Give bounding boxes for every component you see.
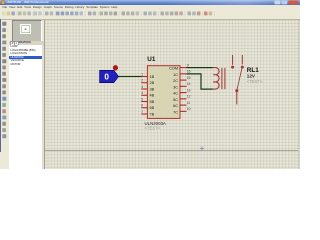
overview window [12, 20, 42, 44]
svg-text:2: 2 [141, 79, 143, 83]
wire: U1 pin 16 (1C) to RL1 coil bottom [187, 74, 213, 89]
pin 4 (4B) [141, 91, 154, 98]
pin 11 (6C) [173, 101, 190, 108]
svg-text:10: 10 [187, 107, 191, 111]
relay RL1 coil (inductor) [213, 68, 219, 90]
node marker dot [113, 65, 118, 70]
svg-text:5C: 5C [173, 98, 178, 102]
logic state input (0) [100, 70, 119, 82]
svg-text:<TEXT>: <TEXT> [247, 79, 263, 84]
wire: U1 pin 9 (COM) to RL1 coil top [187, 67, 213, 69]
toolbar [0, 10, 300, 20]
svg-text:13: 13 [187, 88, 191, 92]
text placeholder of U1 [145, 126, 161, 131]
left toolbar icons [2, 22, 6, 138]
pin 1 (1B) [141, 72, 154, 79]
relay RL1 pole terminal [235, 89, 238, 104]
schematic canvas [45, 20, 301, 169]
titlebar app icon [1, 1, 4, 4]
pin 9 (COM) [169, 63, 189, 70]
value label 12V [247, 73, 256, 78]
left tool column [0, 20, 9, 169]
relay RL1 contact terminal (right) [241, 55, 244, 69]
pin 12 (5C) [173, 95, 190, 102]
svg-text:1: 1 [141, 72, 143, 76]
pin 16 (1C) [173, 70, 190, 77]
svg-text:4: 4 [141, 91, 143, 95]
wire: logic state output to U1 pin 1 (1B) [118, 76, 141, 78]
pin 3 (3B) [141, 85, 154, 92]
svg-text:14: 14 [187, 82, 191, 86]
relay RL1 contact terminal (left) [231, 55, 234, 69]
svg-text:9: 9 [187, 63, 189, 67]
svg-text:<TEXT>: <TEXT> [145, 126, 161, 131]
svg-text:7C: 7C [173, 110, 178, 114]
label U1 [147, 56, 156, 63]
svg-text:4B: 4B [150, 94, 155, 98]
svg-text:11: 11 [187, 101, 191, 105]
menu bar [0, 5, 300, 10]
svg-text:12V: 12V [247, 73, 256, 78]
relay RL1 core bars [222, 68, 225, 89]
svg-text:COM: COM [169, 67, 178, 71]
svg-text:6: 6 [141, 104, 143, 108]
svg-text:4C: 4C [173, 92, 178, 96]
pin 6 (6B) [141, 104, 154, 111]
svg-text:5B: 5B [150, 100, 155, 104]
text placeholder of RL1 [247, 79, 263, 84]
svg-text:3B: 3B [150, 87, 155, 91]
overview mini schematic [22, 26, 30, 33]
svg-text:2C: 2C [173, 79, 178, 83]
value label ULN2003A [145, 121, 167, 126]
pin 14 (3C) [173, 82, 190, 89]
svg-text:U1: U1 [147, 56, 156, 63]
label RL1 [247, 67, 259, 74]
svg-text:3C: 3C [173, 85, 178, 89]
IC U1 body (ULN2003A darlington array) [147, 66, 180, 119]
svg-text:6C: 6C [173, 104, 178, 108]
pin 2 (2B) [141, 79, 154, 86]
svg-text:6B: 6B [150, 106, 155, 110]
relay RL1 switch blade [237, 68, 242, 90]
toolbar icons [2, 11, 214, 16]
svg-text:12: 12 [187, 95, 191, 99]
svg-text:5: 5 [141, 97, 143, 101]
svg-text:1B: 1B [150, 75, 155, 79]
svg-text:2B: 2B [150, 81, 155, 85]
svg-text:1C: 1C [173, 73, 178, 77]
pin 15 (2C) [173, 76, 190, 83]
pin 7 (7B) [141, 110, 154, 117]
svg-text:16: 16 [187, 70, 191, 74]
window caption buttons (min/max/close) [275, 1, 299, 5]
title bar [0, 0, 300, 5]
device list [9, 45, 42, 169]
svg-text:15: 15 [187, 76, 191, 80]
svg-text:7: 7 [141, 110, 143, 114]
svg-text:3: 3 [141, 85, 143, 89]
svg-text:7B: 7B [150, 112, 155, 116]
P/L header [9, 41, 44, 45]
pin 5 (5B) [141, 97, 154, 104]
pin 13 (4C) [173, 88, 190, 95]
svg-text:0: 0 [104, 73, 109, 82]
origin marker cross [200, 147, 204, 151]
pin 10 (7C) [173, 107, 190, 114]
